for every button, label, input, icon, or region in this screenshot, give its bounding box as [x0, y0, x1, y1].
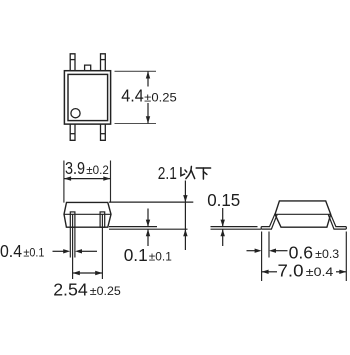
- svg-text:±0.1: ±0.1: [23, 246, 44, 260]
- svg-text:±0.3: ±0.3: [315, 247, 339, 261]
- svg-text:0.4: 0.4: [0, 241, 22, 261]
- svg-text:±0.25: ±0.25: [90, 284, 121, 298]
- svg-text:±0.2: ±0.2: [86, 163, 109, 177]
- svg-text:3.9: 3.9: [65, 158, 85, 178]
- svg-text:7.0: 7.0: [278, 261, 304, 281]
- svg-text:±0.25: ±0.25: [144, 90, 177, 104]
- svg-text:0.6: 0.6: [289, 242, 314, 262]
- svg-text:4.4: 4.4: [121, 86, 144, 106]
- svg-text:±0.4: ±0.4: [306, 265, 334, 279]
- svg-text:2.54: 2.54: [53, 279, 88, 299]
- svg-text:0.1: 0.1: [124, 245, 148, 265]
- svg-text:2.1: 2.1: [158, 163, 177, 183]
- svg-text:0.15: 0.15: [207, 190, 240, 210]
- svg-text:±0.1: ±0.1: [149, 250, 172, 264]
